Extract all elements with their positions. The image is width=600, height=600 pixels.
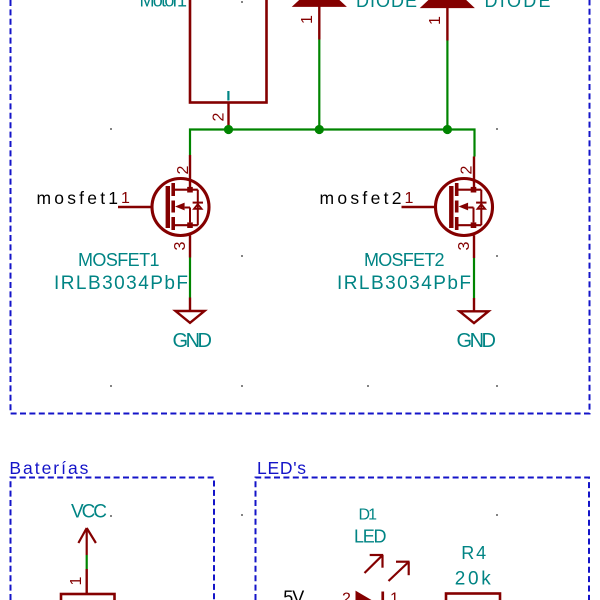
svg-text:3: 3 [172,241,189,250]
motor pin 2 [227,103,229,127]
wire: mosfet1 source to gnd [189,258,191,298]
motor M1 body [190,0,267,103]
sheet box: motor/mosfet section (dashed blue) [11,0,590,414]
motor pin 2 name [227,91,229,101]
svg-text:LED: LED [354,527,387,547]
svg-text:LED's: LED's [257,458,306,478]
wire: diode1 to bus [318,40,320,130]
power symbol VCC [78,528,96,555]
junction at diode2 [443,125,452,134]
power symbol GND (left) [176,298,205,323]
svg-text:2: 2 [342,591,351,600]
svg-text:IRLB3034PbF: IRLB3034PbF [54,273,188,294]
svg-text:GND: GND [173,330,213,352]
grid dots [110,1,498,517]
wire: vcc to battery [86,555,88,569]
svg-text:1: 1 [299,15,316,24]
wire: bus from mosfet1 drain to mosfet2 drain [190,130,475,157]
transistor Q mosfet1 [118,155,209,258]
wire: mosfet2 source to gnd [473,258,475,298]
svg-text:DIODE: DIODE [356,0,417,11]
svg-text:2: 2 [175,165,192,174]
sheet box: baterias section (dashed blue) [11,478,215,600]
junction at diode1 [315,125,324,134]
svg-text:mosfet1: mosfet1 [37,188,119,208]
diode D? (flyback diode 1, clipped at top) [293,0,346,6]
resistor R4 body (clipped at bottom) [446,594,500,600]
battery pin 1 [85,569,87,594]
svg-text:GND: GND [457,330,497,352]
svg-text:2: 2 [211,112,228,121]
power symbol GND (right) [460,298,489,323]
sheet box: LEDs section (dashed blue) [256,478,590,600]
svg-text:D1: D1 [359,507,378,524]
svg-text:1: 1 [68,576,85,585]
svg-text:5V: 5V [283,588,304,600]
svg-text:DIODE: DIODE [485,0,551,11]
svg-text:3: 3 [456,241,473,250]
svg-text:1: 1 [427,16,444,25]
svg-text:mosfet2: mosfet2 [320,188,402,208]
junction at motor pin [224,125,233,134]
diode2 pin 1 [446,8,448,41]
transistor Q mosfet2 [402,157,493,259]
wire: diode2 to bus [446,41,448,130]
svg-text:IRLB3034PbF: IRLB3034PbF [337,273,471,294]
svg-text:2: 2 [459,165,476,174]
diode1 pin 1 [318,6,320,39]
LED emission arrow 2 [389,562,410,581]
svg-text:MOSFET2: MOSFET2 [364,250,445,270]
svg-text:R4: R4 [461,543,486,563]
svg-text:VCC: VCC [71,502,107,523]
svg-text:Baterías: Baterías [9,458,88,478]
svg-text:1: 1 [121,190,130,207]
battery BT body (clipped at bottom) [61,594,115,600]
svg-text:20k: 20k [455,569,492,590]
diode 2 (flyback diode 2, clipped at top) [421,0,474,8]
svg-text:MOSFET1: MOSFET1 [78,250,160,270]
LED emission arrow 1 [365,555,384,573]
LED D1 cathode bar (clipped at bottom) [381,592,384,600]
LED D1 triangle (clipped at bottom) [356,592,371,600]
svg-text:1: 1 [405,190,414,207]
svg-text:Motor1: Motor1 [140,0,188,11]
svg-text:1: 1 [390,591,399,600]
